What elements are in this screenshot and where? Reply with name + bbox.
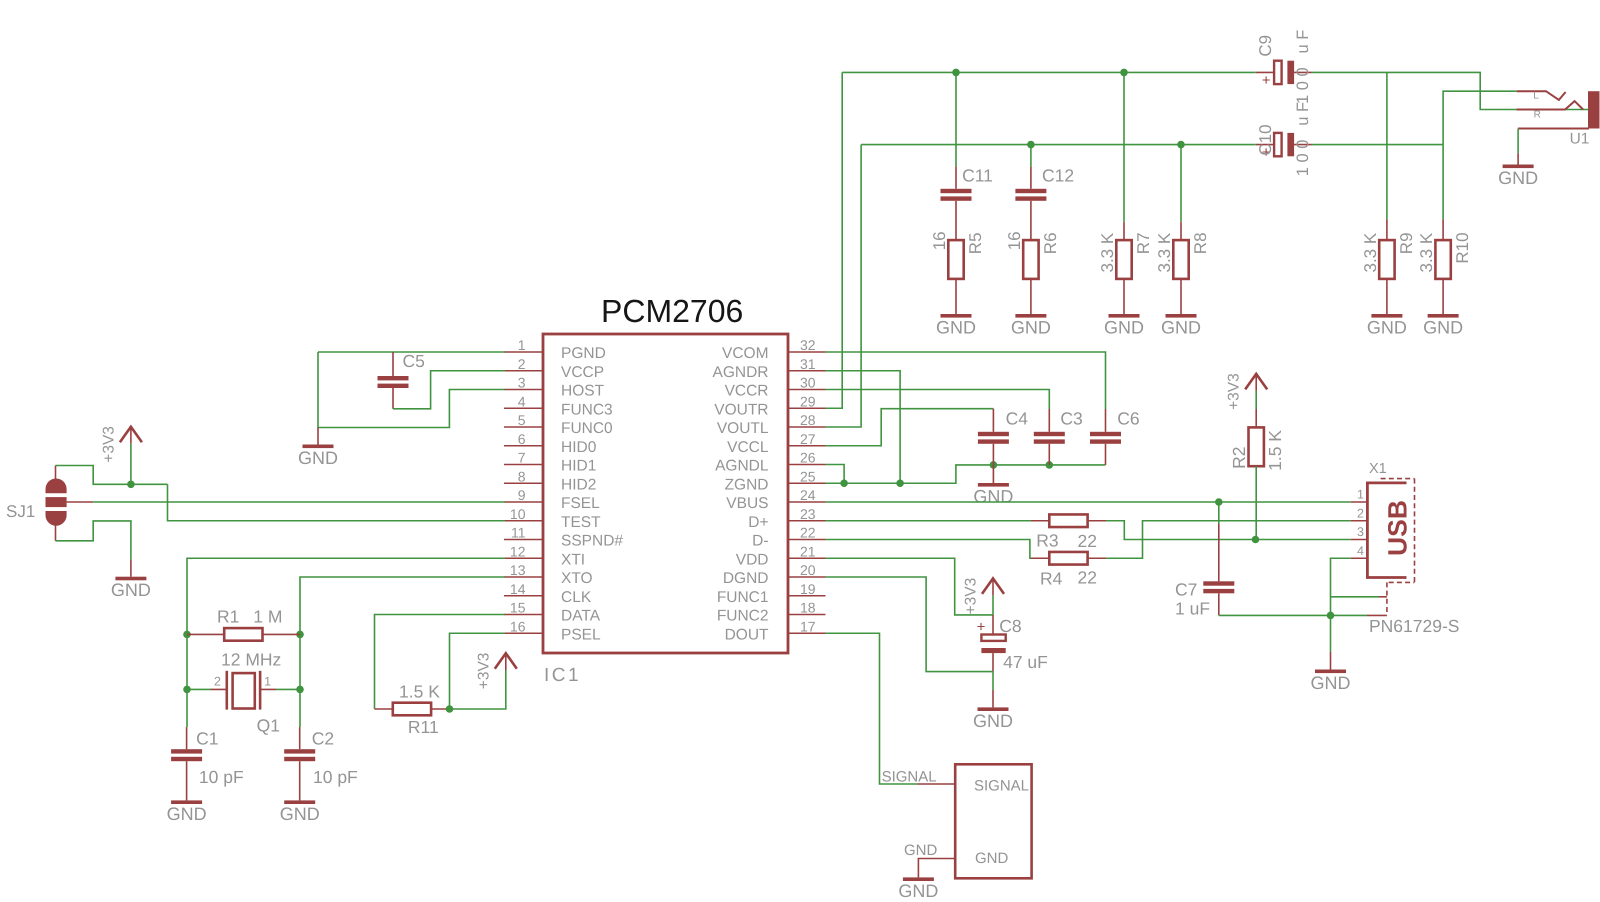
connector X1 pin 2 stub — [1351, 520, 1368, 522]
wire VOUTR net pin29 riser — [826, 72, 843, 408]
svg-text:1.5 K: 1.5 K — [399, 682, 440, 702]
svg-text:C3: C3 — [1060, 409, 1082, 429]
wire VCCR net pin30 — [826, 390, 1050, 410]
resistor R6 — [1005, 231, 1060, 314]
svg-text:4: 4 — [1357, 544, 1364, 558]
svg-text:30: 30 — [800, 375, 816, 391]
svg-text:19: 19 — [800, 581, 816, 597]
wire PGND pin1 net — [318, 351, 505, 353]
svg-text:10 pF: 10 pF — [313, 767, 358, 787]
wire shield pin lower — [1367, 614, 1387, 616]
wire TEST net to pin10 — [168, 484, 506, 520]
svg-text:GND: GND — [167, 804, 207, 824]
svg-text:GND: GND — [111, 580, 151, 600]
pin 11 SSPND# stub — [504, 539, 543, 541]
power +3V3 (SJ1) — [100, 426, 141, 484]
wire rail2 to C12 — [1030, 145, 1032, 167]
ground (R6) — [1011, 314, 1051, 338]
svg-text:L: L — [1533, 91, 1539, 102]
wire VOUTL rail — [861, 144, 1256, 146]
svg-text:3: 3 — [518, 375, 526, 391]
svg-text:SSPND#: SSPND# — [561, 533, 623, 550]
svg-text:C4: C4 — [1006, 409, 1029, 429]
svg-text:GND: GND — [1367, 318, 1407, 338]
svg-text:+3V3: +3V3 — [475, 653, 492, 690]
svg-text:26: 26 — [800, 450, 816, 466]
wire R2 to D+ — [1255, 466, 1257, 539]
node XTO-Q1 junction — [296, 686, 304, 694]
wire +3V3 net from SJ1 top pad — [56, 466, 168, 485]
svg-text:27: 27 — [800, 431, 816, 447]
node AGNDL-ZGND junction — [840, 479, 848, 487]
IC IC1 PCM2706 box — [543, 334, 788, 653]
ground (R5) — [936, 314, 976, 338]
wire C7 GND rail — [1219, 614, 1367, 616]
wire shield pin upper — [1331, 596, 1380, 598]
wire jack L riser — [1443, 91, 1517, 144]
svg-text:PN61729-S: PN61729-S — [1369, 616, 1459, 636]
svg-text:GND: GND — [973, 711, 1013, 731]
node C3-rail junction — [1046, 461, 1054, 469]
node C4-rail junction — [990, 461, 998, 469]
wire USB pin4 down — [1331, 558, 1351, 615]
svg-text:24: 24 — [800, 487, 816, 503]
node D+ pullup junction — [1252, 536, 1260, 544]
svg-text:9: 9 — [518, 487, 526, 503]
ground (R9) — [1367, 314, 1407, 338]
svg-text:28: 28 — [800, 412, 816, 428]
resistor R2 — [1249, 409, 1264, 466]
resistor R9 — [1361, 219, 1416, 314]
wire FSEL net to pin9 — [93, 501, 505, 503]
svg-text:PGND: PGND — [561, 345, 606, 362]
pin 7 HID1 stub — [504, 464, 543, 466]
svg-text:HID0: HID0 — [561, 439, 597, 456]
svg-text:R7: R7 — [1134, 232, 1153, 254]
wire DOUT net pin17 — [826, 633, 918, 784]
node XTI-R1 junction — [183, 631, 191, 639]
node rail1-C11 — [952, 69, 960, 77]
svg-text:GND: GND — [975, 850, 1009, 867]
capacitor C10 — [1256, 97, 1312, 176]
pin 6 HID0 stub — [504, 445, 543, 447]
svg-text:31: 31 — [800, 356, 816, 372]
wire R3 to USB pin3 — [1106, 521, 1351, 540]
svg-text:VCCR: VCCR — [725, 383, 769, 400]
connector U1 L contact — [1517, 91, 1566, 100]
node AGNDR-ZGND junction — [896, 479, 904, 487]
pin 25 ZGND stub — [788, 482, 826, 484]
svg-text:R5: R5 — [966, 232, 985, 254]
svg-text:GND: GND — [1423, 318, 1463, 338]
capacitor C1 — [171, 727, 202, 800]
pin 21 VDD stub — [788, 557, 826, 559]
wire AGNDR net pin31 — [826, 371, 901, 484]
pin 20 DGND stub — [788, 576, 826, 578]
svg-text:23: 23 — [800, 506, 816, 522]
svg-text:16: 16 — [930, 231, 949, 250]
svg-text:16: 16 — [510, 618, 526, 634]
svg-text:FSEL: FSEL — [561, 495, 600, 512]
wire rail1 to R7 — [1123, 72, 1125, 222]
svg-text:GND: GND — [1011, 318, 1051, 338]
ground (R8) — [1161, 314, 1201, 338]
wire SJ1 bottom pad to GND — [56, 521, 131, 560]
svg-text:C10: C10 — [1256, 124, 1275, 155]
svg-text:22: 22 — [1078, 531, 1097, 551]
resistor R3 — [1031, 514, 1106, 527]
wire C10 to jack L — [1312, 144, 1444, 146]
svg-text:VOUTL: VOUTL — [717, 420, 769, 437]
power +3V3 (R2) — [1226, 373, 1268, 410]
svg-text:VCCL: VCCL — [727, 439, 769, 456]
svg-text:4: 4 — [518, 393, 526, 409]
svg-text:32: 32 — [800, 337, 816, 353]
svg-text:GND: GND — [1498, 168, 1538, 188]
wire pin1 to GND vertical — [318, 352, 505, 428]
svg-text:USB: USB — [1383, 500, 1413, 556]
ground (C4) — [973, 465, 1013, 507]
svg-text:C11: C11 — [962, 166, 993, 186]
svg-text:10 pF: 10 pF — [199, 767, 244, 787]
svg-text:7: 7 — [518, 450, 526, 466]
capacitor C5 — [378, 352, 409, 409]
capacitor C6 — [1090, 409, 1121, 465]
svg-text:FUNC2: FUNC2 — [717, 608, 769, 625]
svg-text:+: + — [977, 619, 986, 636]
svg-text:U1: U1 — [1570, 131, 1590, 148]
svg-text:1: 1 — [264, 674, 271, 688]
svg-text:1: 1 — [518, 337, 526, 353]
svg-text:3.3 K: 3.3 K — [1155, 232, 1174, 272]
svg-text:Q1: Q1 — [257, 716, 280, 736]
svg-text:R11: R11 — [408, 717, 439, 737]
svg-text:SJ1: SJ1 — [6, 502, 35, 521]
capacitor C2 — [284, 727, 315, 800]
svg-text:R: R — [1534, 110, 1541, 121]
resistor R7 — [1098, 222, 1153, 314]
wire VBUS to C7 — [1218, 502, 1220, 524]
svg-text:R9: R9 — [1397, 232, 1416, 254]
wire jack sleeve to GND — [1517, 129, 1519, 154]
ground (U1) — [1498, 153, 1538, 188]
svg-text:18: 18 — [800, 600, 816, 616]
svg-text:2: 2 — [214, 674, 221, 688]
svg-text:1.5 K: 1.5 K — [1265, 430, 1285, 471]
svg-text:25: 25 — [800, 468, 816, 484]
ground (C2) — [280, 800, 320, 824]
capacitor C4 — [978, 409, 1009, 465]
svg-text:HID2: HID2 — [561, 476, 596, 493]
svg-text:XTO: XTO — [561, 570, 593, 587]
svg-text:FUNC1: FUNC1 — [717, 589, 769, 606]
svg-text:SIGNAL: SIGNAL — [974, 778, 1029, 795]
svg-text:GND: GND — [298, 448, 338, 468]
node rail1-R7 — [1120, 69, 1128, 77]
svg-text:22: 22 — [1078, 568, 1097, 588]
pin 26 AGNDL stub — [788, 464, 826, 466]
wire R10 riser — [1442, 145, 1444, 220]
ground (C1) — [167, 800, 207, 824]
wire C9 to jack R — [1312, 72, 1593, 109]
svg-text:VOUTR: VOUTR — [714, 401, 768, 418]
ground (C5) — [298, 428, 338, 469]
connector U1 jack body — [1588, 91, 1600, 128]
resistor R5 — [930, 231, 985, 314]
wire XTO net from pin13 — [300, 577, 505, 727]
capacitor C12 — [1015, 167, 1046, 241]
svg-text:C2: C2 — [312, 729, 334, 749]
svg-text:12: 12 — [510, 543, 526, 559]
pin 15 DATA stub — [504, 614, 543, 616]
connector X1 shield dashed outline — [1381, 479, 1415, 616]
svg-text:C7: C7 — [1175, 580, 1197, 600]
ground (R7) — [1104, 314, 1144, 338]
svg-text:C8: C8 — [999, 616, 1021, 636]
svg-text:FUNC0: FUNC0 — [561, 420, 613, 437]
svg-text:20: 20 — [800, 562, 816, 578]
svg-text:DGND: DGND — [723, 570, 769, 587]
wire GND rail drop — [1330, 615, 1332, 651]
svg-text:14: 14 — [510, 581, 526, 597]
connector X1 pin 4 stub — [1351, 557, 1368, 559]
svg-text:1 uF: 1 uF — [1175, 599, 1210, 619]
node VBUS-C7 junction — [1215, 498, 1223, 506]
svg-text:R8: R8 — [1191, 232, 1210, 254]
ground (SIGNAL) — [898, 877, 938, 901]
svg-text:C6: C6 — [1117, 409, 1139, 429]
pin 31 AGNDR stub — [788, 370, 826, 372]
wire VCOM net pin32 — [826, 352, 1106, 409]
svg-text:11: 11 — [511, 525, 526, 541]
svg-text:R1: R1 — [217, 607, 239, 627]
node rail2-C12 — [1027, 141, 1035, 149]
pin 10 TEST stub — [504, 520, 543, 522]
svg-text:VDD: VDD — [736, 551, 769, 568]
svg-text:1 M: 1 M — [253, 607, 282, 627]
pin 18 FUNC2 stub — [788, 614, 826, 616]
svg-text:HID1: HID1 — [561, 458, 596, 475]
wire D+ net pin23 — [826, 520, 1032, 522]
svg-text:16: 16 — [1005, 231, 1024, 250]
wire VDD net pin21 — [826, 558, 994, 615]
wire D- net pin22 — [826, 540, 1032, 559]
connector U1 R contact — [1517, 101, 1583, 109]
svg-text:AGNDR: AGNDR — [713, 364, 769, 381]
node XTI-Q1 junction — [183, 686, 191, 694]
wire rail1 to C11 — [955, 72, 957, 166]
pin 19 FUNC1 stub — [788, 595, 826, 597]
pin 23 D+ stub — [788, 520, 826, 522]
svg-text:3.3 K: 3.3 K — [1098, 232, 1117, 272]
wire R11 to PSEL pin16 — [450, 633, 506, 709]
wire R4 to USB pin2 — [1106, 521, 1351, 559]
capacitor C3 — [1034, 409, 1065, 465]
svg-text:VBUS: VBUS — [726, 495, 768, 512]
pin 16 PSEL stub — [504, 632, 543, 634]
pin 14 CLK stub — [504, 595, 543, 597]
pin 2 VCCP stub — [504, 370, 543, 372]
jumper SJ1 pads — [46, 466, 94, 541]
svg-text:+: + — [1262, 72, 1271, 89]
wire C5 to VCCP pin2 — [393, 371, 505, 409]
wire VOUTL net pin28 riser — [826, 145, 862, 427]
power +3V3 (C8) — [963, 578, 1005, 615]
pin 24 VBUS stub — [788, 501, 826, 503]
svg-text:TEST: TEST — [561, 514, 601, 531]
svg-text:1: 1 — [1357, 488, 1364, 502]
pin 9 FSEL stub — [504, 501, 543, 503]
svg-text:IC1: IC1 — [544, 665, 581, 686]
pin 32 VCOM stub — [788, 351, 826, 353]
svg-text:CLK: CLK — [561, 589, 592, 606]
svg-text:29: 29 — [800, 393, 816, 409]
svg-text:6: 6 — [518, 431, 526, 447]
svg-text:R6: R6 — [1041, 232, 1060, 254]
connector X1 USB box — [1367, 483, 1406, 578]
svg-text:3.3 K: 3.3 K — [1361, 232, 1380, 272]
svg-text:PCM2706: PCM2706 — [601, 293, 743, 329]
power +3V3 (R11) — [475, 653, 517, 690]
svg-text:ZGND: ZGND — [725, 476, 769, 493]
svg-text:+3V3: +3V3 — [100, 426, 117, 463]
pin 28 VOUTL stub — [788, 426, 826, 428]
svg-text:D-: D- — [752, 533, 768, 550]
svg-text:VCCP: VCCP — [561, 364, 604, 381]
crystal Q1 — [187, 671, 300, 710]
wire rail1 to R9 — [1386, 72, 1388, 219]
svg-text:GND: GND — [1104, 318, 1144, 338]
svg-text:D+: D+ — [748, 514, 768, 531]
wire XTI net from pin12 — [187, 558, 505, 727]
svg-text:R4: R4 — [1040, 569, 1063, 589]
svg-text:C1: C1 — [196, 729, 218, 749]
wire VBUS net pin24 — [826, 501, 1351, 503]
pin 3 HOST stub — [504, 389, 543, 391]
wire AGNDL net pin26 — [826, 465, 845, 484]
resistor R1 — [187, 628, 300, 641]
wire DATA net from pin15 — [375, 615, 506, 710]
svg-text:8: 8 — [518, 468, 526, 484]
svg-text:12 MHz: 12 MHz — [221, 650, 281, 670]
svg-text:R3: R3 — [1036, 530, 1058, 550]
svg-text:C12: C12 — [1042, 166, 1074, 186]
pin 29 VOUTR stub — [788, 407, 826, 409]
svg-text:21: 21 — [800, 543, 816, 559]
connector X1 pin 1 stub — [1351, 501, 1368, 503]
svg-text:3: 3 — [1357, 525, 1364, 539]
resistor R10 — [1417, 219, 1472, 314]
pin 12 XTI stub — [504, 557, 543, 559]
capacitor C7 — [1203, 524, 1234, 615]
svg-text:15: 15 — [510, 600, 526, 616]
svg-text:GND: GND — [1311, 673, 1351, 693]
pin 5 FUNC0 stub — [504, 426, 543, 428]
pin 27 VCCL stub — [788, 445, 826, 447]
wire rail2 to R8 — [1180, 145, 1182, 223]
svg-text:47 uF: 47 uF — [1003, 652, 1048, 672]
pin 8 HID2 stub — [504, 482, 543, 484]
node XTO-R1 junction — [296, 631, 304, 639]
connector SIGNAL box — [955, 764, 1031, 878]
svg-text:2: 2 — [518, 356, 526, 372]
svg-text:HOST: HOST — [561, 383, 605, 400]
svg-text:C5: C5 — [403, 351, 425, 371]
wire ZGND net pin25 — [826, 465, 1106, 483]
wire C8 to GND — [992, 672, 994, 690]
svg-text:100 uF: 100 uF — [1294, 25, 1312, 104]
node GND rail junction — [1327, 612, 1335, 620]
svg-text:X1: X1 — [1369, 461, 1387, 477]
svg-text:GND: GND — [280, 804, 320, 824]
connector U1 sleeve — [1518, 128, 1589, 130]
svg-text:GND: GND — [973, 487, 1013, 507]
svg-text:GND: GND — [936, 318, 976, 338]
node R11 junction — [446, 705, 454, 713]
svg-text:VCOM: VCOM — [722, 345, 769, 362]
wire GND pin of SIGNAL box — [918, 859, 955, 878]
resistor R8 — [1155, 222, 1210, 314]
wire shield pin upper red — [1379, 596, 1387, 598]
svg-text:GND: GND — [898, 881, 938, 901]
svg-text:DATA: DATA — [561, 608, 601, 625]
pin 4 FUNC3 stub — [504, 407, 543, 409]
wire R11 junction to +3V3 — [450, 670, 506, 709]
svg-text:13: 13 — [510, 562, 526, 578]
wire SIGNAL pin stub — [917, 783, 955, 785]
svg-text:SIGNAL: SIGNAL — [882, 768, 937, 785]
svg-text:AGNDL: AGNDL — [715, 458, 769, 475]
svg-text:100 uF: 100 uF — [1294, 97, 1312, 176]
svg-text:10: 10 — [510, 506, 526, 522]
svg-text:22: 22 — [800, 525, 816, 541]
svg-text:GND: GND — [1161, 318, 1201, 338]
resistor R11 — [375, 703, 450, 716]
svg-text:3.3 K: 3.3 K — [1417, 232, 1436, 272]
pin 22 D- stub — [788, 539, 826, 541]
node rail2-R8 — [1177, 141, 1185, 149]
ground (SJ1) — [111, 560, 151, 601]
wire VCCL net pin27 — [826, 409, 994, 446]
svg-text:PSEL: PSEL — [561, 626, 601, 643]
svg-text:GND: GND — [904, 842, 938, 859]
svg-text:XTI: XTI — [561, 551, 585, 568]
svg-text:DOUT: DOUT — [725, 626, 769, 643]
svg-text:+3V3: +3V3 — [963, 578, 980, 615]
capacitor C8 — [977, 615, 1006, 672]
connector X1 pin 3 stub — [1351, 539, 1368, 541]
node +3V3 junction — [127, 481, 135, 489]
svg-text:17: 17 — [800, 618, 816, 634]
capacitor C9 — [1256, 25, 1312, 104]
svg-text:R2: R2 — [1229, 447, 1249, 469]
pin 1 PGND stub — [504, 351, 543, 353]
svg-text:5: 5 — [518, 412, 526, 428]
pin 13 XTO stub — [504, 576, 543, 578]
capacitor C11 — [941, 167, 972, 241]
wire DGND net pin20 — [826, 577, 994, 672]
wire VOUTR top rail — [842, 71, 1256, 73]
ground (USB) — [1311, 652, 1351, 693]
pin 17 DOUT stub — [788, 632, 826, 634]
ground (R10) — [1423, 314, 1463, 338]
resistor R4 — [1031, 552, 1106, 565]
svg-text:R10: R10 — [1453, 232, 1472, 263]
svg-text:2: 2 — [1357, 506, 1364, 520]
ground (C8) — [973, 690, 1013, 731]
pin 30 VCCR stub — [788, 389, 826, 391]
svg-text:C9: C9 — [1256, 35, 1275, 57]
